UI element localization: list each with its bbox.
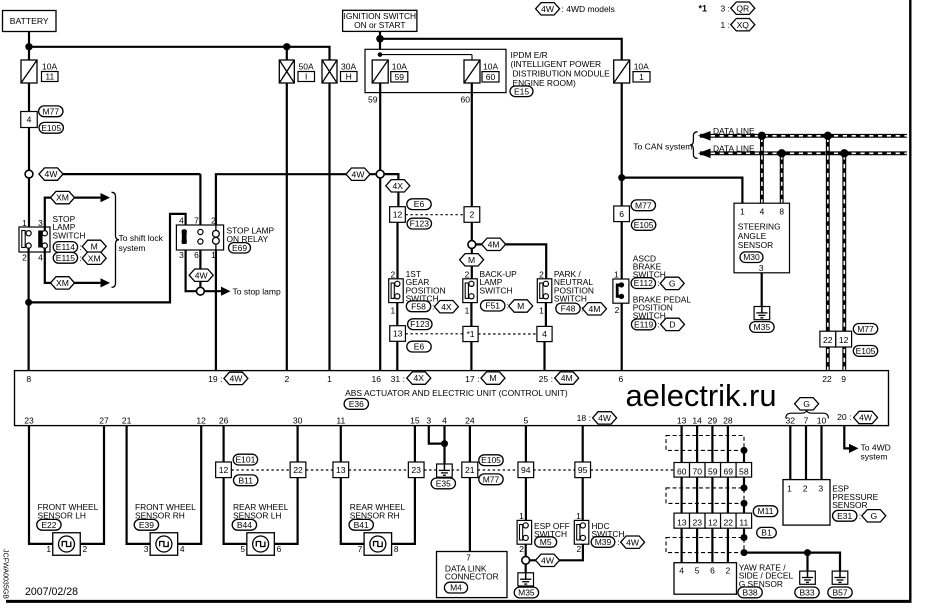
- svg-text:4X: 4X: [414, 373, 425, 383]
- svg-text:14: 14: [692, 415, 702, 425]
- svg-text:DATA LINE: DATA LINE: [713, 126, 755, 136]
- svg-text:4M: 4M: [488, 239, 500, 249]
- svg-text:4W: 4W: [626, 537, 640, 547]
- svg-text:69: 69: [724, 466, 734, 476]
- svg-text:ABS ACTUATOR AND ELECTRIC UNIT: ABS ACTUATOR AND ELECTRIC UNIT (CONTROL …: [345, 388, 568, 398]
- svg-text:59: 59: [368, 95, 378, 105]
- svg-text:12: 12: [839, 335, 849, 345]
- svg-text:1: 1: [539, 305, 544, 315]
- svg-text:1: 1: [46, 544, 51, 554]
- svg-text::: :: [79, 253, 81, 263]
- svg-text:23: 23: [411, 465, 421, 475]
- svg-text:D: D: [669, 320, 675, 330]
- svg-text::: :: [859, 511, 861, 521]
- svg-text:4W: 4W: [541, 555, 555, 565]
- svg-text:10: 10: [817, 415, 827, 425]
- svg-text:11: 11: [739, 517, 748, 527]
- svg-text:12: 12: [196, 415, 206, 425]
- svg-text:4W: 4W: [541, 4, 555, 14]
- svg-text:4W: 4W: [45, 169, 59, 179]
- svg-text:2: 2: [803, 484, 808, 494]
- svg-text:E105: E105: [634, 220, 654, 230]
- svg-text:13: 13: [336, 465, 346, 475]
- svg-text:E22: E22: [41, 520, 56, 530]
- svg-text:DATA LINE: DATA LINE: [713, 144, 755, 154]
- svg-text:9: 9: [841, 374, 846, 384]
- svg-text:E35: E35: [436, 478, 451, 488]
- svg-text:E105: E105: [41, 123, 61, 133]
- svg-text:B1: B1: [761, 528, 772, 538]
- svg-text:3: 3: [179, 250, 184, 260]
- svg-text:1: 1: [465, 305, 470, 315]
- svg-text:I: I: [305, 72, 307, 82]
- svg-text:27: 27: [99, 415, 109, 425]
- svg-text:XM: XM: [88, 253, 101, 263]
- svg-text:SENSOR: SENSOR: [738, 240, 773, 250]
- svg-text:B33: B33: [799, 587, 814, 597]
- svg-text:8: 8: [26, 374, 31, 384]
- svg-text:20 :: 20 :: [837, 412, 851, 422]
- svg-text:30: 30: [293, 415, 303, 425]
- svg-text:E105: E105: [481, 455, 501, 465]
- svg-text:SWITCH: SWITCH: [554, 294, 587, 304]
- svg-text:10A: 10A: [392, 61, 407, 71]
- svg-text:M: M: [91, 242, 98, 252]
- svg-text:E112: E112: [634, 278, 653, 288]
- svg-text:To stop lamp: To stop lamp: [233, 287, 281, 297]
- svg-text:21: 21: [465, 465, 475, 475]
- svg-text:6: 6: [619, 209, 624, 219]
- svg-text:SENSOR: SENSOR: [832, 500, 867, 510]
- svg-text:1: 1: [327, 374, 332, 384]
- svg-text::: :: [79, 242, 81, 252]
- svg-text:4: 4: [542, 329, 547, 339]
- svg-text:3: 3: [818, 484, 823, 494]
- svg-text:8: 8: [394, 544, 399, 554]
- svg-text:4: 4: [760, 207, 765, 217]
- svg-text:23: 23: [692, 517, 702, 527]
- svg-text:2: 2: [390, 270, 395, 280]
- svg-text:CONNECTOR: CONNECTOR: [445, 572, 499, 582]
- svg-text:11: 11: [45, 72, 54, 82]
- svg-text:7: 7: [804, 415, 809, 425]
- svg-text:28: 28: [723, 415, 733, 425]
- svg-text:system: system: [861, 452, 888, 462]
- svg-text:1: 1: [787, 484, 792, 494]
- svg-text:3: 3: [426, 415, 431, 425]
- svg-text:3: 3: [38, 218, 43, 228]
- svg-text:M35: M35: [754, 322, 771, 332]
- svg-text:1: 1: [740, 207, 745, 217]
- svg-text:E39: E39: [139, 520, 154, 530]
- svg-text:1: 1: [390, 305, 395, 315]
- svg-text:18 :: 18 :: [577, 413, 591, 423]
- svg-text:5: 5: [524, 415, 529, 425]
- svg-text:6: 6: [619, 374, 624, 384]
- svg-text:10A: 10A: [42, 62, 57, 72]
- svg-text:1 :: 1 :: [721, 20, 730, 30]
- svg-text:4: 4: [27, 115, 32, 125]
- svg-text:B38: B38: [743, 587, 758, 597]
- svg-text:59: 59: [708, 466, 718, 476]
- svg-text:2: 2: [22, 253, 27, 263]
- svg-text:2: 2: [470, 210, 475, 220]
- svg-text:22: 22: [293, 465, 303, 475]
- svg-text:: 4WD models: : 4WD models: [562, 4, 615, 14]
- svg-text:6: 6: [710, 566, 715, 576]
- svg-text:10A: 10A: [483, 61, 498, 71]
- svg-text:B44: B44: [237, 520, 252, 530]
- svg-text:7: 7: [194, 216, 199, 226]
- svg-text:22: 22: [823, 335, 833, 345]
- svg-text:32: 32: [786, 415, 796, 425]
- svg-text:12: 12: [708, 517, 718, 527]
- svg-text:M5: M5: [540, 537, 552, 547]
- svg-text:M: M: [517, 301, 524, 311]
- svg-text:M77: M77: [635, 200, 652, 210]
- svg-text:2: 2: [726, 566, 731, 576]
- svg-text:12: 12: [219, 465, 229, 475]
- svg-text:4W: 4W: [859, 413, 873, 423]
- svg-text:M11: M11: [758, 506, 774, 516]
- svg-text:7: 7: [358, 544, 363, 554]
- svg-text:58: 58: [739, 466, 749, 476]
- svg-text:4: 4: [38, 253, 43, 263]
- svg-text:3 :: 3 :: [721, 4, 730, 14]
- svg-text:F48: F48: [561, 304, 576, 314]
- svg-text:JCFWA0035GB: JCFWA0035GB: [2, 549, 9, 599]
- svg-text:26: 26: [219, 415, 229, 425]
- svg-text:2: 2: [519, 544, 524, 554]
- svg-text:59: 59: [395, 72, 405, 82]
- svg-text:QR: QR: [736, 3, 749, 13]
- svg-text:4W: 4W: [598, 413, 612, 423]
- svg-text:5: 5: [240, 544, 245, 554]
- svg-text:M77: M77: [857, 324, 874, 334]
- svg-text:21: 21: [122, 415, 132, 425]
- svg-text:19 :: 19 :: [208, 374, 222, 384]
- svg-text:2: 2: [576, 544, 581, 554]
- svg-text:4: 4: [180, 544, 185, 554]
- svg-text:G: G: [870, 511, 877, 521]
- svg-text:G: G: [669, 279, 676, 289]
- svg-text:29: 29: [708, 415, 718, 425]
- svg-text:E101: E101: [235, 455, 255, 465]
- svg-text:2: 2: [615, 305, 620, 315]
- svg-text:4X: 4X: [441, 302, 452, 312]
- svg-text:E105: E105: [856, 346, 876, 356]
- svg-text:30A: 30A: [341, 62, 356, 72]
- svg-text:E31: E31: [837, 511, 852, 521]
- svg-text:2: 2: [465, 270, 470, 280]
- svg-text:system: system: [119, 243, 146, 253]
- svg-text:2: 2: [285, 374, 290, 384]
- svg-text:BATTERY: BATTERY: [10, 16, 49, 26]
- svg-text:4: 4: [442, 415, 447, 425]
- svg-text:50A: 50A: [299, 62, 314, 72]
- svg-text:F51: F51: [485, 301, 500, 311]
- svg-text:B57: B57: [832, 587, 847, 597]
- svg-text:ON or START: ON or START: [354, 20, 405, 30]
- svg-text:B11: B11: [238, 475, 253, 485]
- svg-text:E6: E6: [414, 342, 425, 352]
- svg-text:1: 1: [639, 72, 644, 82]
- svg-text:13: 13: [393, 329, 403, 339]
- svg-text:E114: E114: [56, 242, 75, 252]
- svg-text::: :: [617, 537, 619, 547]
- svg-text:22: 22: [724, 517, 734, 527]
- svg-text:3: 3: [759, 263, 764, 273]
- svg-text:To shift lock: To shift lock: [119, 233, 164, 243]
- svg-text:22: 22: [822, 374, 832, 384]
- svg-text:E36: E36: [349, 399, 364, 409]
- svg-text::: :: [657, 319, 659, 329]
- svg-text:M: M: [489, 373, 496, 383]
- svg-text:60: 60: [461, 95, 471, 105]
- svg-text:23: 23: [24, 415, 34, 425]
- svg-text:M77: M77: [43, 106, 60, 116]
- svg-text:F123: F123: [410, 319, 430, 329]
- svg-text:6: 6: [277, 544, 282, 554]
- svg-text:11: 11: [336, 415, 345, 425]
- svg-text:60: 60: [677, 466, 687, 476]
- svg-text:M39: M39: [595, 537, 612, 547]
- svg-text:25 :: 25 :: [539, 374, 553, 384]
- svg-text:4W: 4W: [352, 169, 366, 179]
- svg-text:SWITCH: SWITCH: [53, 231, 86, 241]
- svg-text:XQ: XQ: [737, 20, 750, 30]
- svg-text:aelectrik.ru: aelectrik.ru: [626, 378, 777, 413]
- svg-text:E115: E115: [56, 253, 75, 263]
- svg-text:SWITCH: SWITCH: [480, 285, 513, 295]
- svg-text:4M: 4M: [561, 373, 573, 383]
- svg-text:6: 6: [194, 250, 199, 260]
- svg-text:XM: XM: [56, 193, 69, 203]
- svg-text:2: 2: [83, 544, 88, 554]
- svg-text:4M: 4M: [589, 304, 601, 314]
- svg-text:G: G: [803, 399, 810, 409]
- svg-text:B41: B41: [354, 520, 369, 530]
- svg-text:M30: M30: [743, 252, 760, 262]
- svg-text:4W: 4W: [229, 374, 243, 384]
- svg-text:M77: M77: [483, 474, 500, 484]
- svg-text:E15: E15: [514, 86, 529, 96]
- svg-text:E6: E6: [414, 199, 425, 209]
- svg-text:*1: *1: [466, 329, 474, 339]
- svg-text:4: 4: [179, 216, 184, 226]
- svg-text:M: M: [468, 255, 475, 265]
- svg-text:F123: F123: [410, 219, 430, 229]
- svg-text::: :: [657, 278, 659, 288]
- svg-text:13: 13: [677, 517, 687, 527]
- svg-text:1: 1: [614, 270, 619, 280]
- svg-text:E69: E69: [232, 243, 247, 253]
- svg-text:8: 8: [779, 207, 784, 217]
- svg-text:10A: 10A: [634, 61, 649, 71]
- svg-text:12: 12: [393, 210, 403, 220]
- svg-text:F58: F58: [411, 301, 426, 311]
- svg-text:94: 94: [521, 465, 531, 475]
- svg-text:1: 1: [519, 511, 524, 521]
- svg-text:*1: *1: [699, 4, 708, 14]
- svg-text:H: H: [346, 72, 352, 82]
- svg-text:95: 95: [578, 465, 588, 475]
- svg-text:M35: M35: [518, 588, 535, 598]
- svg-text:1: 1: [576, 511, 581, 521]
- svg-text:E119: E119: [634, 319, 653, 329]
- svg-text:1: 1: [22, 218, 27, 228]
- svg-text:To CAN system: To CAN system: [633, 141, 692, 151]
- svg-text:5: 5: [695, 566, 700, 576]
- svg-text:31 :: 31 :: [391, 374, 405, 384]
- svg-text:13: 13: [677, 415, 687, 425]
- svg-text:M4: M4: [450, 583, 462, 593]
- svg-text:2007/02/28: 2007/02/28: [25, 586, 78, 598]
- svg-text:17 :: 17 :: [465, 374, 479, 384]
- svg-text:2: 2: [539, 270, 544, 280]
- svg-text:4: 4: [679, 566, 684, 576]
- svg-text:7: 7: [466, 553, 471, 563]
- svg-text:24: 24: [465, 415, 475, 425]
- svg-text:3: 3: [144, 544, 149, 554]
- svg-text:4W: 4W: [195, 270, 209, 280]
- svg-text:70: 70: [692, 466, 702, 476]
- svg-text:16: 16: [372, 374, 382, 384]
- svg-text:XM: XM: [56, 278, 69, 288]
- svg-text:15: 15: [410, 415, 420, 425]
- svg-text:4X: 4X: [393, 181, 404, 191]
- svg-text:60: 60: [486, 72, 496, 82]
